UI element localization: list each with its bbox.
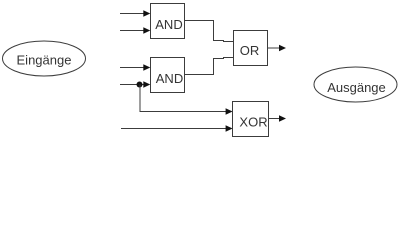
- gate OR: [234, 31, 268, 66]
- wire AND1 output to OR input 1: [185, 21, 234, 42]
- wire branch from junction down to XOR input 1: [140, 85, 226, 112]
- svg-text:OR: OR: [240, 43, 260, 58]
- svg-text:XOR: XOR: [239, 115, 267, 130]
- arrowhead input 1 AND1: [143, 10, 150, 17]
- wire input 1 to AND1: [120, 13, 144, 15]
- arrowhead input 2 AND1: [143, 27, 150, 34]
- wire input 2 to AND2 (with branch): [120, 84, 144, 86]
- node Eingänge (left ellipse): [3, 41, 86, 76]
- wire XOR output: [269, 118, 281, 120]
- arrowhead XOR input 2: [226, 125, 233, 132]
- wire OR output: [268, 47, 281, 49]
- gate AND1 (top AND box): [151, 4, 185, 39]
- wire input 2 to AND1: [120, 30, 144, 32]
- arrowhead input 2 AND2: [143, 81, 150, 88]
- arrowhead input 1 AND2: [143, 64, 150, 71]
- svg-text:AND: AND: [156, 71, 183, 86]
- junction dot on AND2 input 2: [137, 82, 143, 88]
- wire input 1 to AND2: [120, 67, 144, 69]
- svg-text:AND: AND: [155, 17, 182, 32]
- node Ausgänge (right ellipse): [314, 67, 397, 102]
- arrowhead XOR input 1: [226, 108, 233, 115]
- svg-text:Ausgänge: Ausgänge: [327, 80, 386, 95]
- arrowhead XOR output: [279, 115, 286, 122]
- svg-text:Eingänge: Eingänge: [17, 53, 72, 68]
- arrowhead OR output: [279, 45, 286, 52]
- wire input to XOR input 2: [121, 128, 226, 130]
- gate AND2 (lower AND box): [151, 58, 185, 93]
- wire AND2 output to OR input 2: [185, 58, 234, 75]
- gate XOR: [233, 102, 269, 137]
